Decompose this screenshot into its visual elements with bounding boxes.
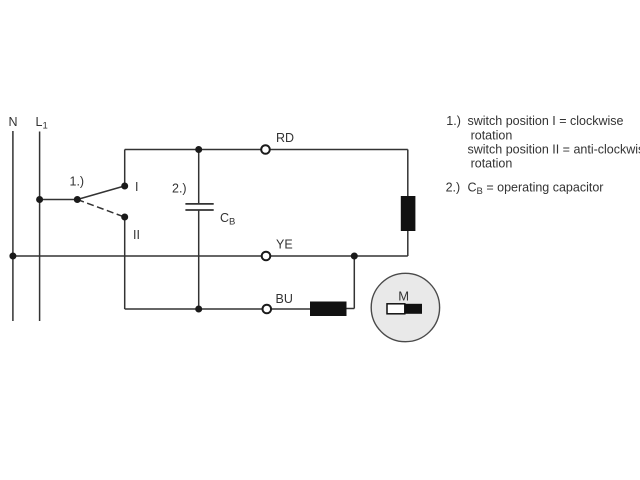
junction dot switch pivot [74, 196, 81, 203]
svg-text:rotation: rotation [471, 128, 513, 142]
motor bar white half [387, 304, 405, 314]
svg-text:YE: YE [276, 238, 293, 252]
node L1 rail [39, 132, 41, 322]
wire winding to YE line [407, 231, 409, 256]
wire capacitor top lead [198, 150, 200, 204]
junction dot contact I [121, 183, 128, 190]
node N rail [12, 131, 14, 321]
wire riser to YE junction [353, 256, 355, 309]
capacitor CB bottom plate [185, 209, 213, 211]
motor bar black half [405, 304, 422, 314]
wire YE line [13, 255, 408, 257]
svg-text:I: I [135, 180, 138, 194]
junction dot YE-riser [351, 253, 358, 260]
switch S1 arm position I (solid) [77, 186, 124, 200]
auxiliary winding (black block) [310, 302, 347, 317]
capacitor CB top plate [185, 203, 213, 205]
wire L1 to switch pivot [40, 199, 78, 201]
junction dot L1-switch [36, 196, 43, 203]
junction dot capacitor bottom BU [195, 306, 202, 313]
wire resistor to riser [347, 308, 355, 310]
switch S1 arm position II (dashed) [77, 200, 124, 218]
svg-text:N: N [9, 115, 18, 129]
junction dot capacitor top [195, 146, 202, 153]
terminal BU [263, 305, 272, 314]
wire capacitor bottom lead [198, 210, 200, 309]
terminal RD [261, 145, 270, 154]
wire contact I riser [124, 150, 126, 187]
wire contact II drop [124, 217, 126, 309]
svg-text:switch position I = clockwise: switch position I = clockwise [468, 114, 624, 128]
motor M circle [371, 273, 439, 341]
svg-text:M: M [398, 289, 409, 304]
svg-text:1.): 1.) [70, 175, 85, 189]
wire BU line [125, 308, 310, 310]
junction dot N-YE [9, 253, 16, 260]
svg-text:switch position II = anti-cloc: switch position II = anti-clockwise [468, 142, 640, 156]
svg-text:II: II [133, 228, 140, 242]
svg-text:rotation: rotation [471, 157, 513, 171]
terminal YE [262, 252, 271, 261]
wire winding drop [407, 150, 409, 197]
svg-text:RD: RD [276, 131, 294, 145]
svg-text:1.): 1.) [446, 114, 461, 128]
svg-text:BU: BU [276, 292, 293, 306]
junction dot contact II [121, 214, 128, 221]
main winding (black block) [401, 196, 416, 231]
svg-text:2.): 2.) [446, 180, 461, 194]
wire RD top line [125, 149, 408, 151]
svg-text:2.): 2.) [172, 182, 187, 196]
